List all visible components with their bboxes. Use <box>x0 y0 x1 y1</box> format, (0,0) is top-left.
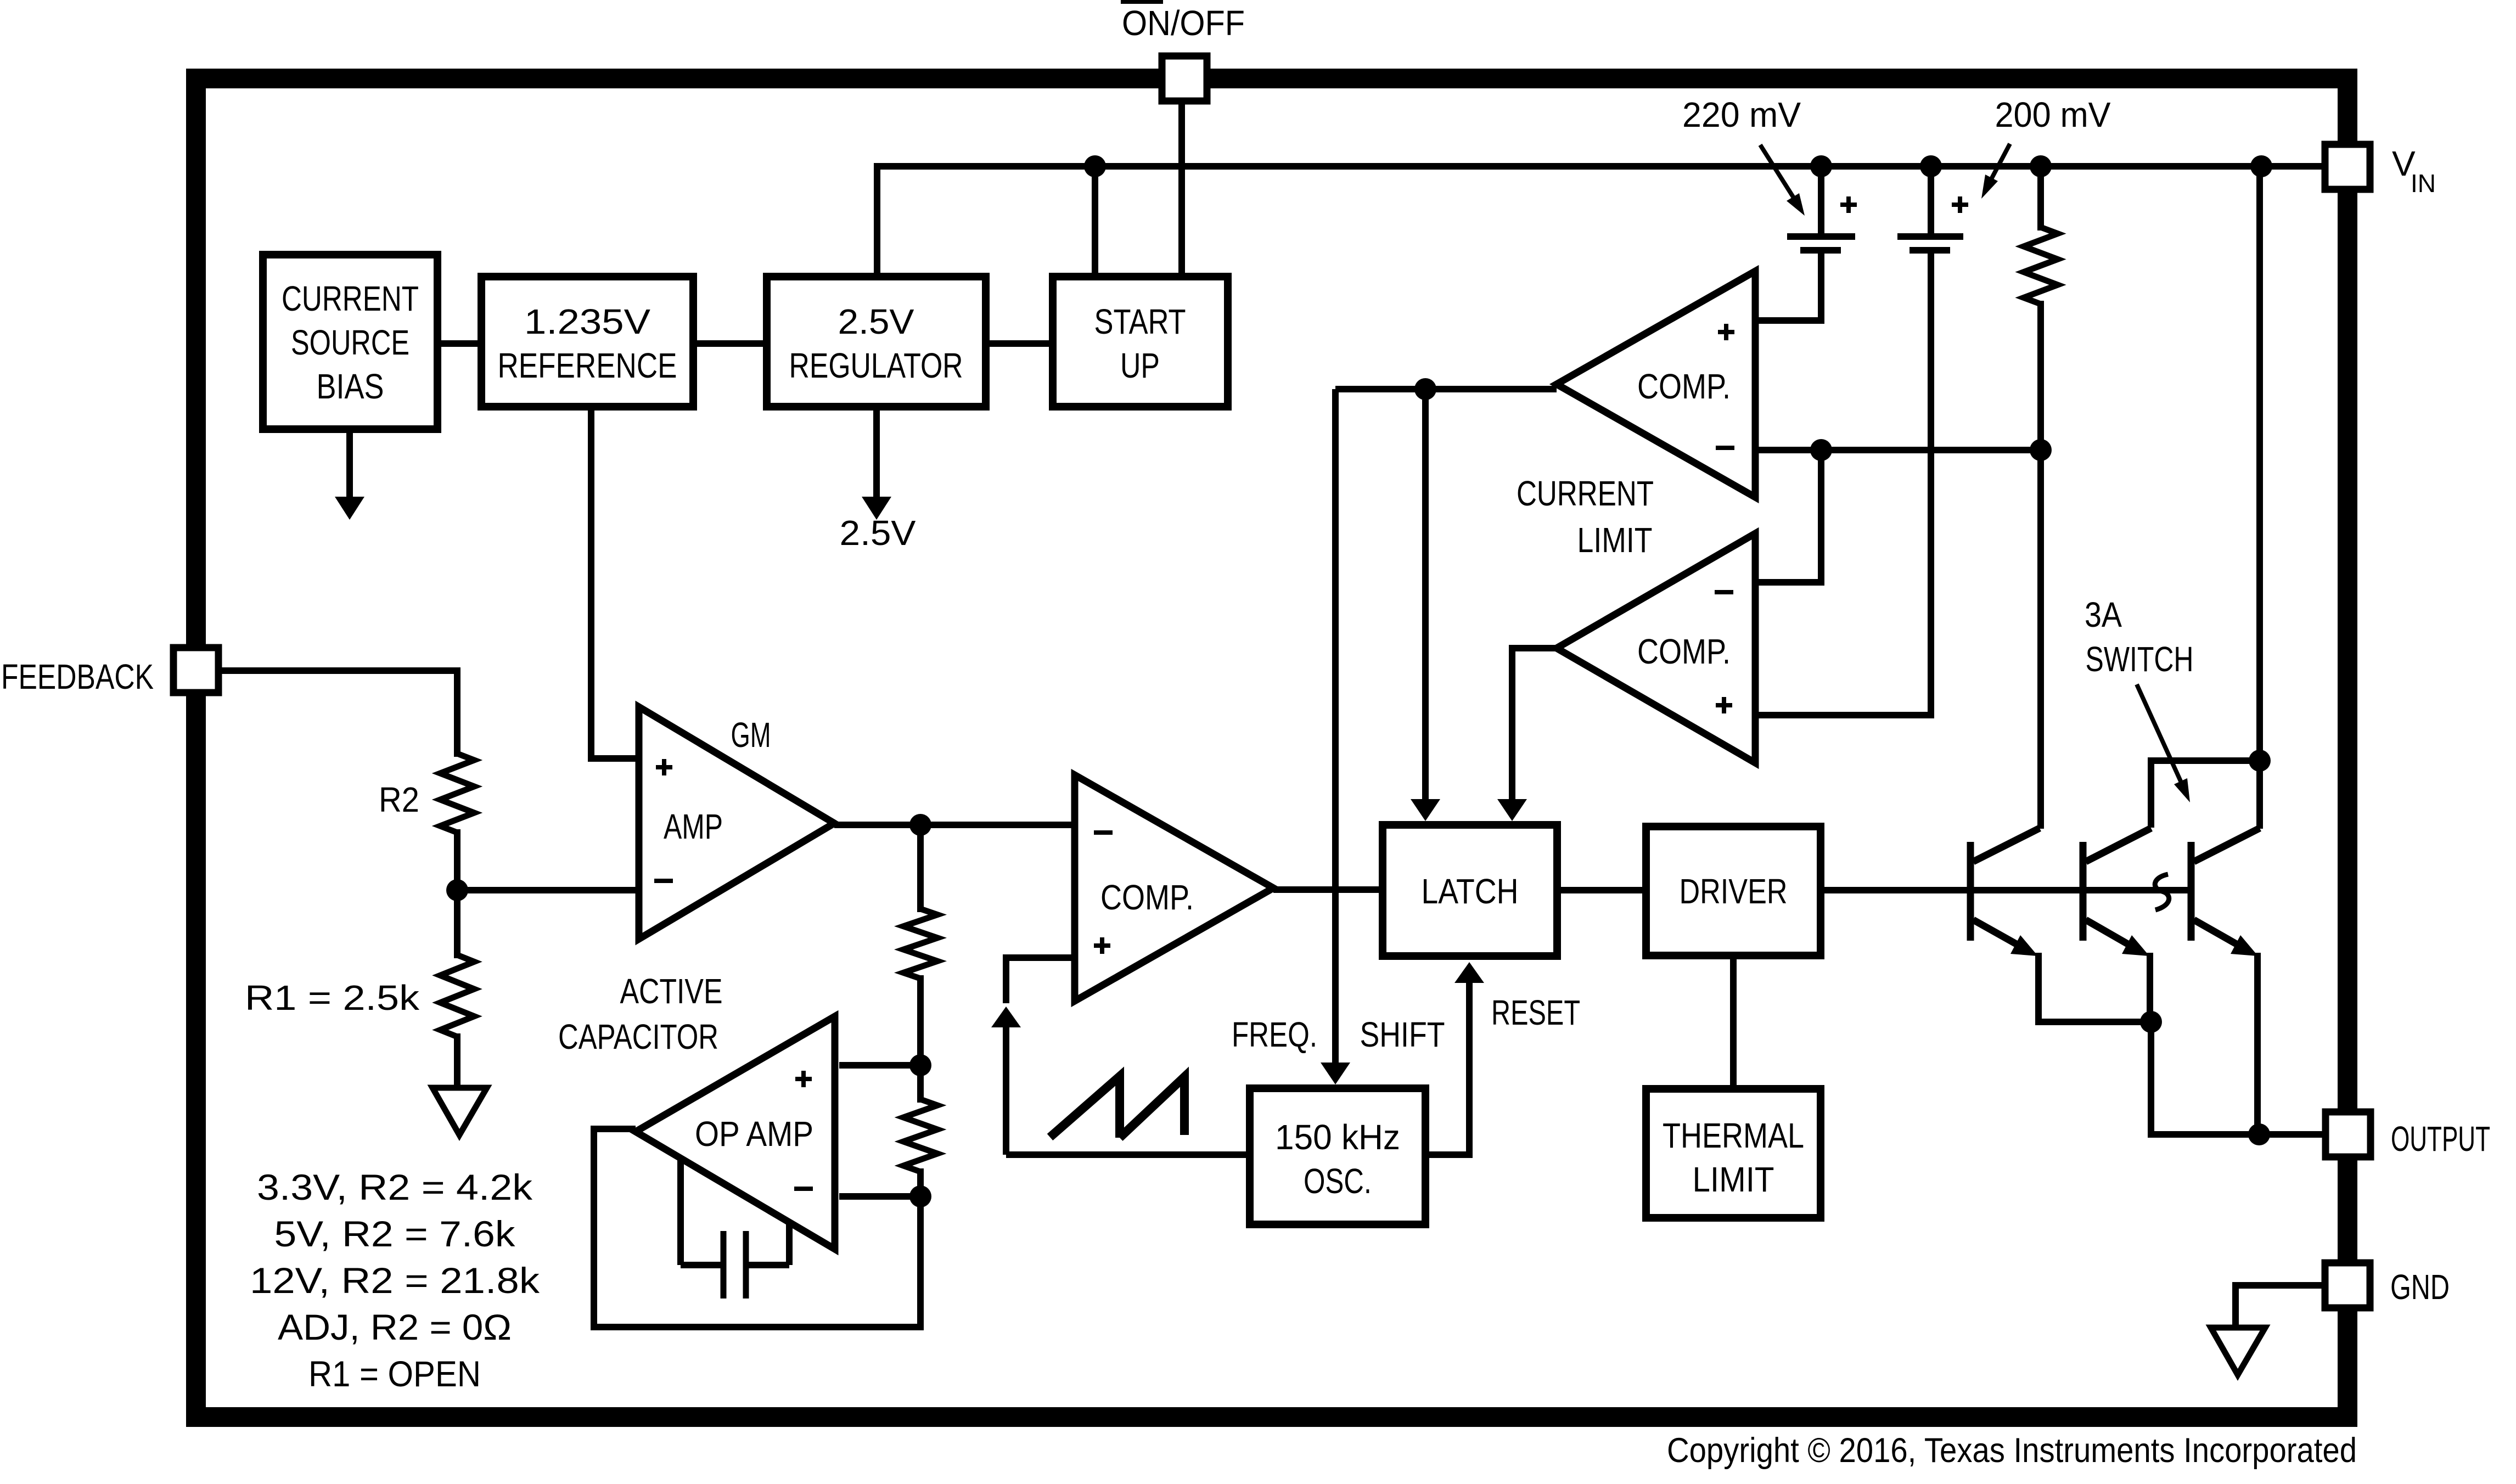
svg-text:OUTPUT: OUTPUT <box>2391 1119 2490 1159</box>
arrow from 3A SWITCH to Q3 <box>2137 684 2182 785</box>
wire: VIN rail y=303 from corner above regulator to VIN pin <box>877 163 2322 170</box>
arrow: bias sink below current source bias <box>346 433 353 497</box>
svg-text:IN: IN <box>2411 169 2436 198</box>
svg-text:CURRENT: CURRENT <box>282 279 419 318</box>
node: output node <box>2248 1123 2270 1145</box>
svg-text:LIMIT: LIMIT <box>1577 520 1653 560</box>
svg-text:FREQ.: FREQ. <box>1232 1015 1317 1054</box>
svg-text:REFERENCE: REFERENCE <box>498 346 677 385</box>
IC package outer boundary <box>196 78 2347 1417</box>
node: comp1 - / sense resistor <box>2030 439 2052 461</box>
svg-text:GND: GND <box>2390 1267 2450 1307</box>
arrowhead into latch (from comp2) <box>1497 799 1527 821</box>
wire: freq shift vertical to oscillator <box>1332 389 1339 1065</box>
node: VIN rail at sense resistor <box>2030 155 2052 177</box>
capacitor C1 (220 mV offset) stem <box>1818 166 1824 237</box>
svg-text:3.3V, R2 = 4.2k: 3.3V, R2 = 4.2k <box>257 1167 533 1207</box>
node: VIN rail / start-up branch <box>1084 155 1106 177</box>
squiggle on base bus <box>2155 874 2169 910</box>
block: START UP <box>1053 277 1228 407</box>
arrow from 200 mV to C2 <box>1990 144 2010 181</box>
wire: driver output base bus to 3A switch <box>1824 887 2191 893</box>
sense resistor from VIN rail <box>2037 166 2044 231</box>
svg-text:LIMIT: LIMIT <box>1693 1160 1774 1199</box>
svg-text:SHIFT: SHIFT <box>1360 1015 1445 1054</box>
ground symbol at GND pin <box>2211 1328 2265 1375</box>
svg-text:150 kHz: 150 kHz <box>1275 1117 1400 1157</box>
transistor Q2 collector diagonal <box>2086 828 2151 862</box>
block: 1.235V REFERENCE <box>481 277 693 407</box>
wire: feedback pin to R2 top <box>221 671 457 757</box>
transistor Q1 base bar <box>1967 842 1974 941</box>
wire: current limit comp2 output <box>1512 645 1557 651</box>
svg-text:220 mV: 220 mV <box>1682 95 1801 134</box>
wire: oscillator left output <box>1006 1151 1246 1158</box>
transistor Q3 emitter arrowhead <box>2231 935 2258 956</box>
svg-text:SWITCH: SWITCH <box>2086 639 2194 679</box>
wire: node down to feedback resistor <box>917 825 924 912</box>
capacitor C2 (200 mV offset) stem <box>1928 166 1934 237</box>
plus mark at C1 <box>1840 203 1857 207</box>
wire: between compensation resistors <box>917 975 924 1103</box>
comparator current limit COMP. (lower) <box>1557 533 1755 763</box>
transistor Q1 emitter diagonal <box>1973 920 2022 947</box>
svg-text:GM: GM <box>731 715 771 755</box>
svg-text:1.235V: 1.235V <box>524 302 650 341</box>
active capacitor C (below op amp) <box>677 1159 684 1265</box>
node: VIN rail at C2 <box>1920 155 1942 177</box>
node: VIN rail to switch collector <box>2250 155 2272 177</box>
wire: R1 bottom to ground <box>454 1033 460 1088</box>
svg-text:LATCH: LATCH <box>1422 872 1519 911</box>
plus mark at C2 <box>1952 203 1968 207</box>
svg-text:2.5V: 2.5V <box>840 513 916 553</box>
node: op amp - input node <box>909 1185 931 1207</box>
transistor Q3 emitter diagonal <box>2194 920 2242 947</box>
wire: drop from VIN rail into 2.5V regulator top <box>874 163 880 273</box>
pin OUTPUT <box>2326 1112 2371 1157</box>
arrowhead up into + input line <box>991 1007 1021 1027</box>
node: switch collector branch <box>2249 750 2271 772</box>
arrowhead into latch (from comp1) <box>1411 799 1440 821</box>
capacitor C2 plates <box>1897 233 1963 240</box>
wire: VIN down to switch <box>2256 166 2263 829</box>
ground symbol below R1 <box>433 1088 487 1135</box>
wire: reset from oscillator to latch <box>1429 982 1469 1155</box>
sawtooth waveform symbol <box>1050 1076 1120 1138</box>
transistor Q1 collector diagonal <box>1973 828 2040 862</box>
wire: op amp feedback loop (output to - node) <box>594 1129 920 1327</box>
transistor Q2 base bar <box>2080 842 2087 941</box>
svg-text:REGULATOR: REGULATOR <box>789 346 963 385</box>
svg-text:COMP.: COMP. <box>1637 632 1731 671</box>
node: feedback divider node <box>446 879 468 901</box>
svg-text:START: START <box>1094 302 1186 341</box>
svg-text:OSC.: OSC. <box>1304 1161 1372 1201</box>
wire: VIN-rail junction down to START UP top <box>1092 166 1098 273</box>
wire: sense resistor down to Q1 collector <box>2037 301 2044 829</box>
op-amp OP AMP (active capacitor) <box>636 1016 835 1249</box>
block: THERMAL LIMIT <box>1646 1089 1821 1218</box>
svg-text:CURRENT: CURRENT <box>1517 474 1654 513</box>
svg-text:R1 = OPEN: R1 = OPEN <box>308 1353 481 1394</box>
svg-text:ADJ, R2 = 0Ω: ADJ, R2 = 0Ω <box>278 1307 512 1347</box>
svg-text:BIAS: BIAS <box>317 367 384 406</box>
svg-text:ON/OFF: ON/OFF <box>1122 3 1245 43</box>
wire: node down to R1 <box>454 890 460 958</box>
wire: lower resistor to op amp - node <box>917 1168 924 1200</box>
svg-text:5V, R2 = 7.6k: 5V, R2 = 7.6k <box>274 1213 516 1254</box>
resistor: lower compensation resistor <box>903 1099 937 1172</box>
svg-text:FEEDBACK: FEEDBACK <box>1 657 154 696</box>
svg-text:OP AMP: OP AMP <box>695 1114 813 1154</box>
svg-text:Copyright © 2016, Texas Instru: Copyright © 2016, Texas Instruments Inco… <box>1667 1431 2357 1470</box>
wire: comp1 - input wire <box>1755 447 2044 453</box>
wire: osc feedback vertical <box>1003 1027 1009 1155</box>
svg-text:200 mV: 200 mV <box>1995 95 2111 134</box>
op-amp GM AMP error amplifier <box>639 707 834 939</box>
wire: PWM comparator + input to osc feedback <box>1006 958 1075 1003</box>
resistor R1 <box>440 955 474 1037</box>
transistor Q2 emitter arrowhead <box>2122 935 2149 956</box>
block: CURRENT SOURCE BIAS <box>263 255 437 429</box>
svg-text:DRIVER: DRIVER <box>1680 872 1788 911</box>
transistor Q2 emitter diagonal <box>2086 920 2133 947</box>
pin ON/OFF <box>1162 56 1207 101</box>
svg-text:THERMAL: THERMAL <box>1663 1116 1804 1155</box>
wire: Q2 emitter vertical <box>2147 953 2153 1025</box>
block: 2.5V REGULATOR <box>767 277 986 407</box>
wire: current limit comp1 output <box>1335 386 1557 392</box>
wire: ON/OFF pin down to START UP top <box>1178 102 1185 273</box>
capacitor C1 plates <box>1787 233 1855 240</box>
svg-text:CAPACITOR: CAPACITOR <box>558 1017 718 1056</box>
wire: comp1 + input stub to 220mV cap <box>1755 250 1821 321</box>
svg-text:R2: R2 <box>379 780 419 819</box>
resistor: upper compensation resistor <box>903 909 937 979</box>
comparator PWM COMP. <box>1075 775 1273 1001</box>
wire: output node to OUTPUT pin <box>2259 1131 2323 1138</box>
pin VIN <box>2325 144 2370 189</box>
wire: current source bias to 1.235V reference <box>441 340 478 347</box>
wire: Q1 emitter down and over to Q2 emitter <box>2038 953 2151 1022</box>
svg-text:ACTIVE: ACTIVE <box>620 971 723 1011</box>
wire: op amp + input stub <box>839 1062 920 1069</box>
node: comp1 - / comp2 - branch <box>1810 439 1832 461</box>
svg-text:2.5V: 2.5V <box>838 302 914 341</box>
node: Q1/Q2 emitters <box>2140 1011 2162 1033</box>
svg-text:R1 = 2.5k: R1 = 2.5k <box>245 978 420 1018</box>
svg-text:COMP.: COMP. <box>1100 878 1194 917</box>
wire: comp2 - input vertical <box>1755 450 1821 582</box>
node: op amp + input node <box>909 1054 931 1076</box>
wire: C2 bottom to comp2 + input <box>1755 250 1931 715</box>
arrowhead up into latch (reset) <box>1454 962 1484 983</box>
wire: reference output down to GM amp + input <box>591 411 639 758</box>
node: VIN rail at C1 <box>1810 155 1832 177</box>
node: GM output / compensation node <box>909 814 931 836</box>
svg-text:12V, R2 = 21.8k: 12V, R2 = 21.8k <box>250 1260 540 1301</box>
svg-text:RESET: RESET <box>1491 993 1580 1032</box>
pin GND <box>2325 1263 2370 1308</box>
node: comp1 output branch <box>1414 378 1436 400</box>
wire: comp1 branch down to latch <box>1422 389 1429 800</box>
wire: PWM comparator output to latch <box>1273 886 1379 893</box>
svg-text:SOURCE: SOURCE <box>291 323 409 362</box>
wire: 1.235V reference to 2.5V regulator <box>697 340 763 347</box>
wire: driver to thermal limit <box>1730 959 1737 1085</box>
wire: latch to driver <box>1561 887 1642 893</box>
wire: op amp - input stub <box>839 1193 920 1200</box>
svg-text:3A: 3A <box>2085 595 2122 634</box>
wire: 2.5V regulator to start up <box>990 340 1049 347</box>
svg-text:AMP: AMP <box>664 807 723 846</box>
wire: GM amp output to PWM comparator - input <box>834 822 1075 828</box>
comparator current limit COMP. (upper) <box>1557 271 1755 497</box>
block: 150 kHz OSC. <box>1250 1088 1425 1224</box>
transistor Q3 collector diagonal <box>2194 828 2260 862</box>
transistor Q1 emitter arrowhead <box>2010 935 2038 956</box>
pin FEEDBACK <box>173 648 218 693</box>
block: LATCH <box>1383 825 1557 956</box>
wire: Q3 emitter vertical <box>2254 953 2261 1134</box>
wire: branch to Q2 collector <box>2151 761 2260 828</box>
arrowhead into oscillator (freq shift) <box>1321 1063 1350 1084</box>
svg-text:UP: UP <box>1120 346 1160 385</box>
resistor R2 <box>440 754 474 833</box>
svg-text:COMP.: COMP. <box>1637 367 1731 406</box>
transistor Q3 base bar <box>2188 842 2195 941</box>
block: DRIVER <box>1646 827 1821 955</box>
arrow: 2.5V output below regulator <box>873 411 880 497</box>
wire: GND pin to ground <box>2236 1285 2323 1328</box>
wire: R2 bottom to feedback node <box>454 829 460 893</box>
arrow from 220 mV to C1 <box>1760 145 1794 199</box>
wire: emitters down to output rail <box>2151 1022 2259 1134</box>
wire: feedback node to GM amp - input <box>457 887 639 893</box>
